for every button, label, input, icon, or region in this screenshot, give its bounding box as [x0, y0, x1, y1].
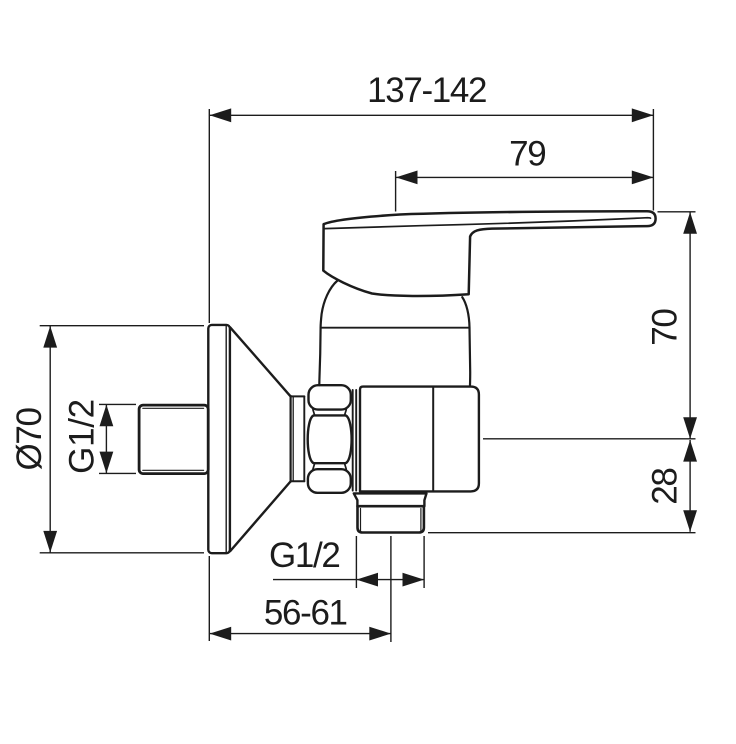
extension line 28 bottom — [428, 532, 696, 534]
arrowhead 56-61 left — [210, 627, 232, 641]
cartridge dome left edge — [319, 281, 337, 386]
neck between cone and hex — [291, 396, 305, 481]
svg-text:28: 28 — [646, 468, 685, 504]
svg-text:70: 70 — [646, 309, 685, 346]
dimension line G1/2 bottom — [273, 579, 424, 581]
extension line outlet left — [355, 536, 357, 588]
escutcheon cone upper edge — [230, 327, 290, 396]
extension line diam70 top — [40, 325, 204, 327]
arrowhead 28 down — [683, 510, 697, 532]
svg-text:79: 79 — [509, 134, 545, 173]
nipple inner bottom line — [143, 469, 204, 471]
extension line wall top (left of 137-142) — [208, 109, 210, 323]
handle lever outline — [323, 211, 655, 296]
extension line 70 top — [658, 211, 696, 213]
extension line diam70 bottom — [40, 552, 204, 554]
arrowhead G1/2 bottom left — [356, 573, 378, 587]
washer strip between hex nut and body — [353, 390, 357, 491]
svg-text:Ø70: Ø70 — [10, 407, 49, 470]
extension line 79 left — [395, 171, 397, 212]
svg-text:G1/2: G1/2 — [63, 399, 102, 474]
extension line outlet centerline — [390, 536, 392, 642]
flange plate inner line — [225, 326, 227, 552]
extension line G1/2 left bottom — [99, 472, 136, 474]
cartridge dome right edge — [462, 297, 470, 385]
arrowhead 137-142 right — [632, 108, 654, 122]
hex nut chamfer joints — [313, 410, 346, 470]
dimension line diam70 — [49, 326, 51, 553]
dimension line 137-142 — [210, 114, 654, 116]
dimension line 79 — [396, 176, 654, 178]
dimension line G1/2 left — [105, 405, 107, 474]
arrowhead 79 right — [632, 171, 654, 185]
extension line 70/28 boundary — [483, 438, 696, 440]
extension line 56-61 left — [208, 556, 210, 641]
svg-text:137-142: 137-142 — [367, 71, 486, 110]
dimension line 28 — [689, 440, 691, 532]
body divider line — [432, 387, 434, 492]
extension line lever tip (right of 137-142 / 79) — [652, 109, 654, 211]
outlet thread relief lines — [361, 509, 421, 532]
arrowhead G1/2 left up — [100, 405, 114, 427]
extension line G1/2 left top — [99, 403, 136, 405]
arrowhead 70 up — [683, 212, 697, 234]
arrowhead 28 up — [683, 440, 697, 462]
svg-text:G1/2: G1/2 — [269, 536, 339, 575]
hex nut top lobe — [309, 385, 351, 409]
arrowhead 70 down — [683, 417, 697, 439]
outlet collar — [354, 493, 427, 506]
extension line outlet right — [423, 536, 425, 588]
arrowhead diam70 down — [43, 531, 57, 553]
main body block — [360, 387, 479, 492]
svg-text:56-61: 56-61 — [264, 593, 347, 632]
outlet threaded stub — [358, 506, 424, 532]
dimension line 70 — [689, 212, 691, 439]
dimension line 56-61 — [210, 633, 391, 635]
arrowhead G1/2 left down — [100, 452, 114, 474]
arrowhead 79 left — [396, 171, 418, 185]
hex nut bottom lobe — [308, 469, 351, 493]
dome divider line — [321, 327, 470, 329]
nipple inner top line — [143, 407, 204, 409]
handle top-face crease line — [325, 218, 651, 229]
threaded inlet nipple — [139, 405, 208, 474]
hex nut middle barrel — [308, 415, 352, 463]
arrowhead 137-142 left — [210, 108, 232, 122]
wall flange plate — [208, 325, 230, 553]
escutcheon cone lower edge — [230, 481, 290, 551]
arrowhead 56-61 right — [369, 627, 391, 641]
arrowhead G1/2 bottom right — [403, 573, 425, 587]
arrowhead diam70 up — [43, 326, 57, 348]
